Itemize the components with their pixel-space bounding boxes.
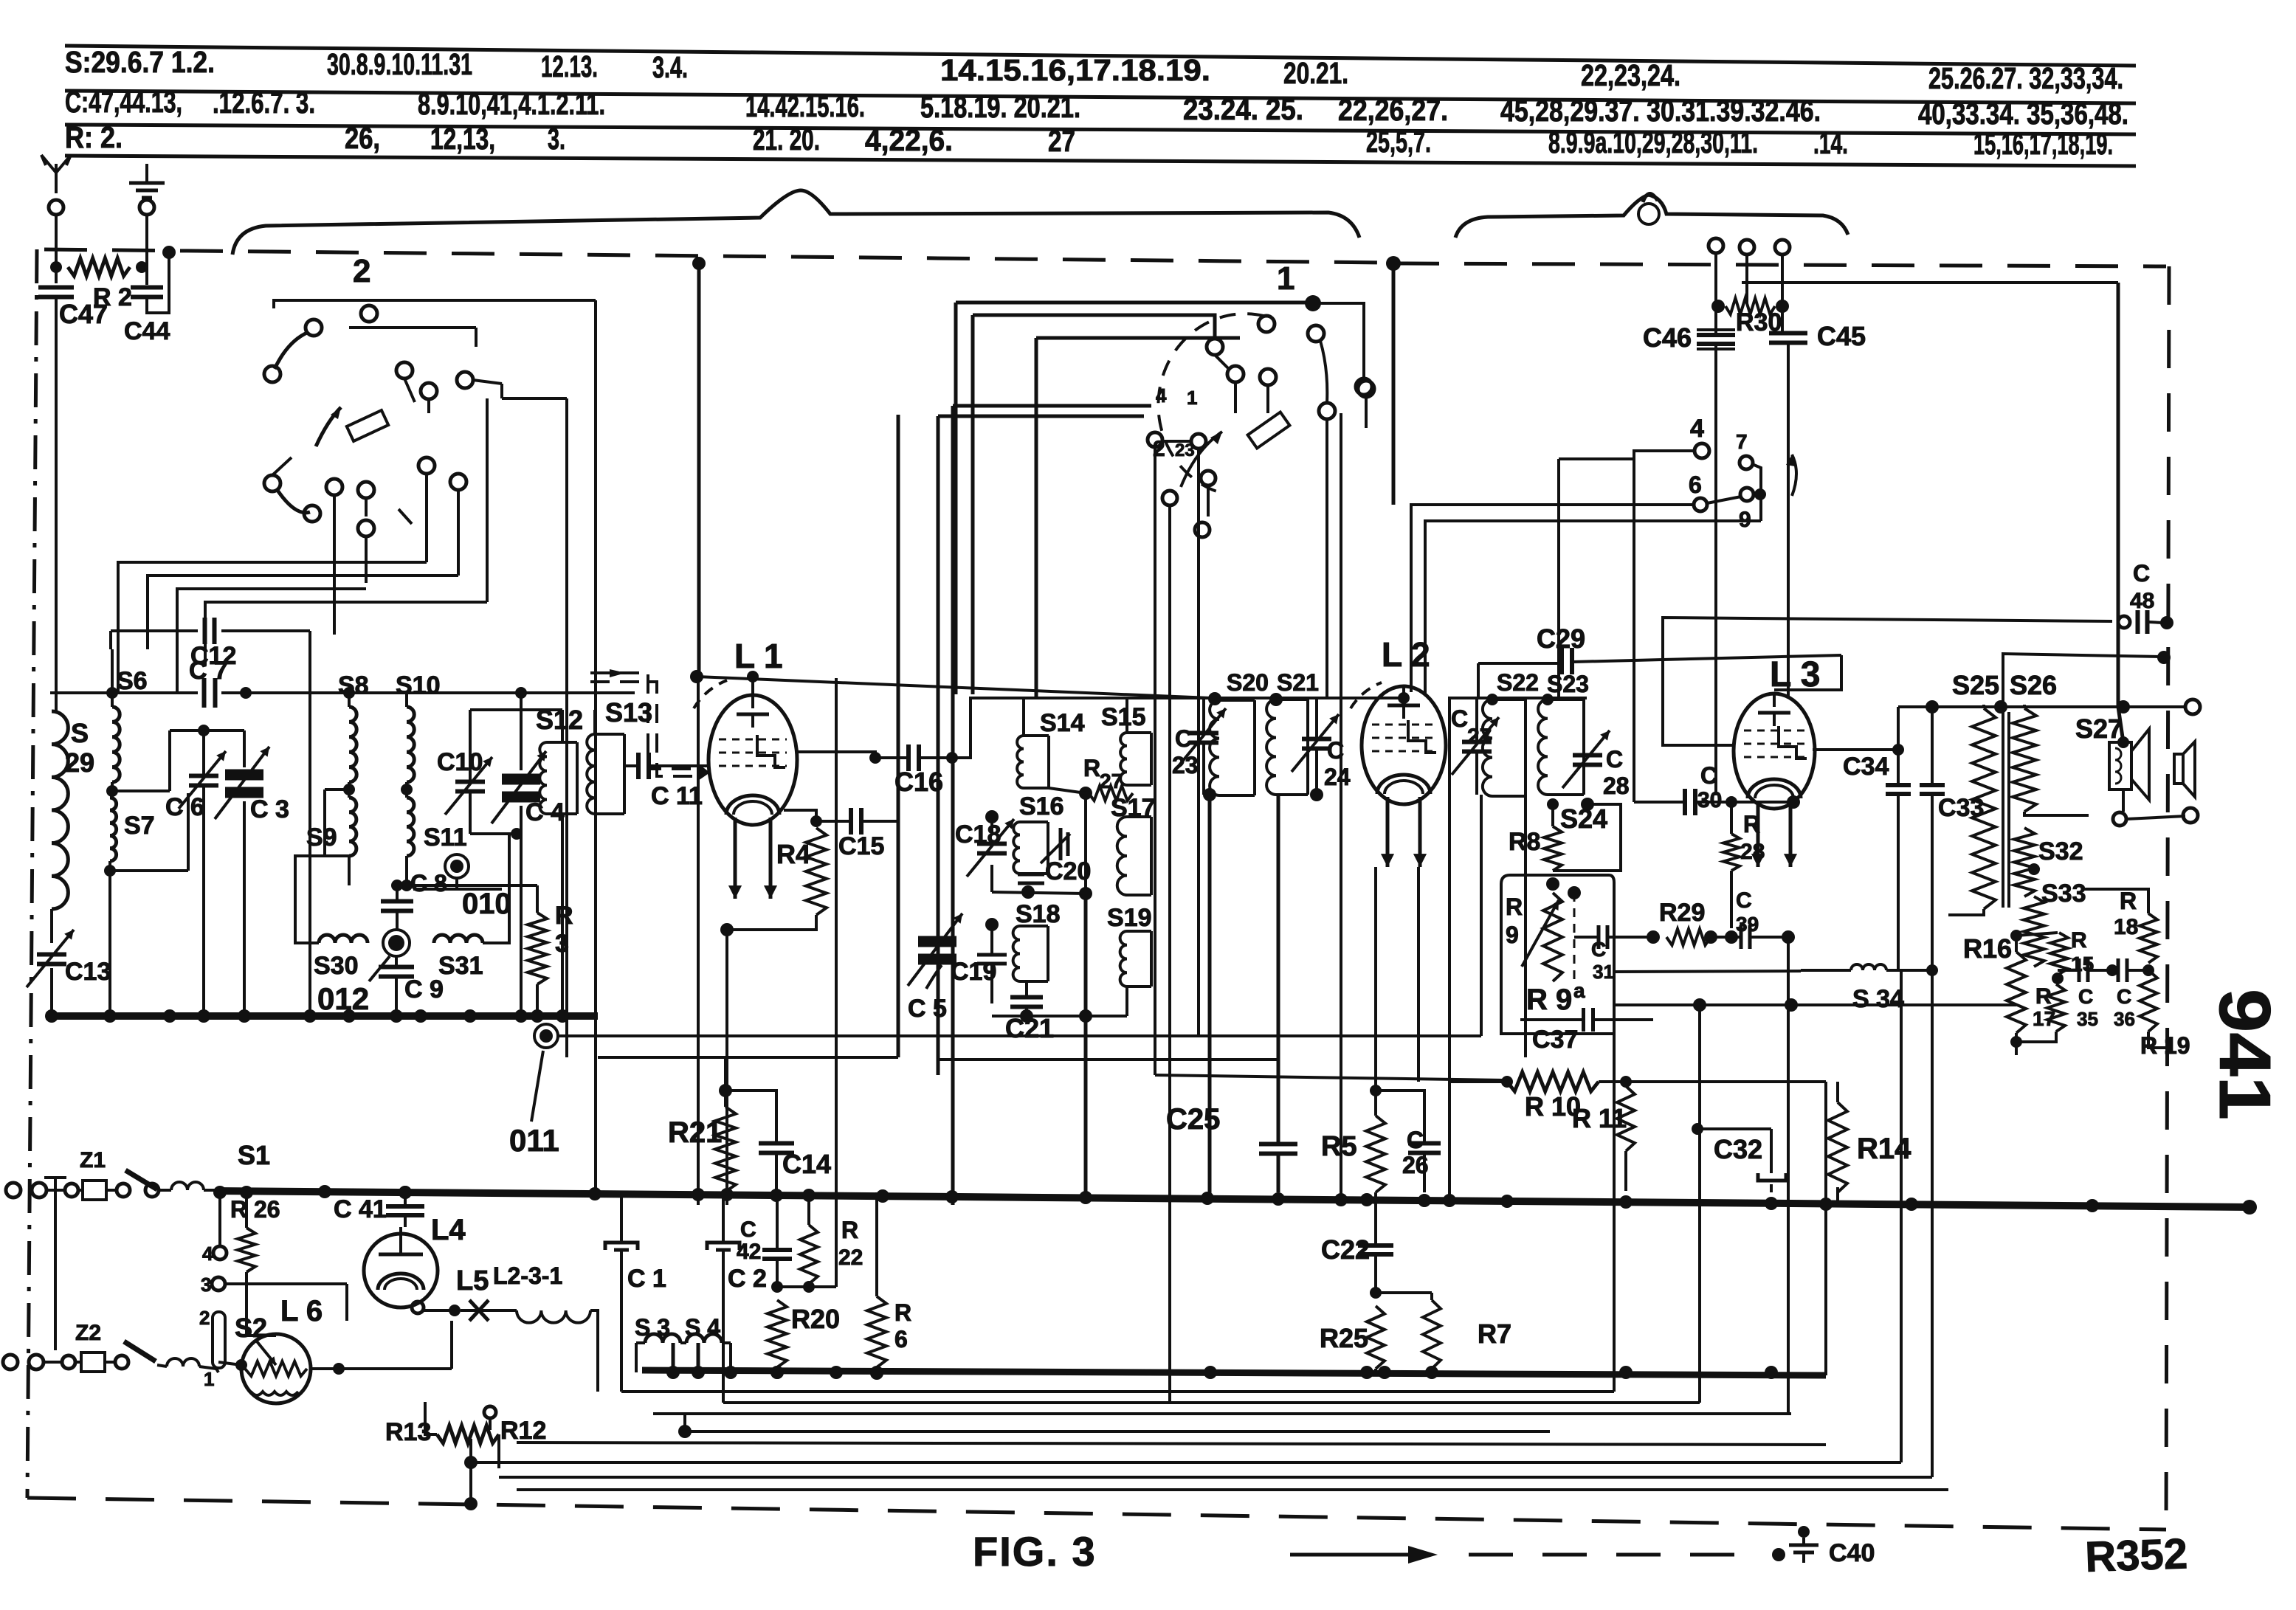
wire C4 vertical	[520, 693, 523, 770]
wire contact 3 right	[225, 1282, 347, 1285]
capacitor C8	[381, 899, 413, 904]
svg-text:C 3: C 3	[250, 795, 289, 823]
svg-text:R: R	[2071, 928, 2087, 953]
dashed border bottom	[27, 1498, 2166, 1530]
svg-text:5.18.19. 20.21.: 5.18.19. 20.21.	[920, 90, 1080, 124]
wire S26 box top to border	[2003, 654, 2159, 707]
capacitor C29	[1559, 648, 1564, 674]
switch 2 rotor bar	[347, 410, 388, 441]
capacitor C12	[203, 618, 207, 644]
switch 1 contact F	[1358, 381, 1374, 397]
wire L1 grid right	[796, 752, 875, 758]
vertical x=1271	[937, 416, 940, 1075]
pointer line 011	[531, 1051, 543, 1122]
S26 to S27 wire	[2024, 812, 2089, 815]
wire S26 top to speaker	[2023, 705, 2026, 708]
svg-text:C 9: C 9	[404, 975, 444, 1003]
switch 1 drop x=1817	[1340, 413, 1342, 1205]
switch 2 drop wire j	[365, 498, 368, 516]
wire R28	[1730, 802, 1733, 834]
transformer S26	[2013, 708, 2036, 812]
wire top horizontal y=939	[50, 691, 198, 694]
wire C23	[1202, 699, 1205, 732]
wire S23 bottom S24	[1587, 766, 1588, 804]
wire C37	[1552, 981, 1554, 1020]
coil S18	[1013, 926, 1020, 981]
dashed border right	[2166, 266, 2169, 1530]
capacitor C7	[202, 678, 207, 708]
svg-text:S19: S19	[1107, 904, 1152, 932]
vertical x=1318	[971, 315, 975, 694]
svg-text:2: 2	[199, 1307, 210, 1329]
switch 2 contact f	[421, 383, 437, 399]
svg-text:28: 28	[1603, 773, 1630, 799]
variable capacitor C13	[37, 953, 66, 957]
svg-text:17: 17	[2033, 1007, 2055, 1030]
resistor R26	[238, 1228, 255, 1272]
svg-text:R 11: R 11	[1572, 1103, 1627, 1133]
svg-text:30.8.9.10.11.31: 30.8.9.10.11.31	[327, 47, 472, 81]
svg-text:S23: S23	[1547, 671, 1589, 697]
tube L3 arrows	[1757, 801, 1760, 867]
svg-text:C29: C29	[1537, 623, 1585, 654]
bundle right stub x=2423	[1787, 937, 1790, 1414]
switch 2 drop wire m	[457, 490, 460, 576]
node C48 left	[2118, 616, 2130, 628]
coil S11	[407, 798, 414, 856]
wire switch3 down to S23	[1557, 459, 1560, 698]
capacitor C1	[605, 1243, 638, 1250]
svg-text:S22: S22	[1497, 669, 1539, 696]
wire C12 horizontal	[111, 629, 198, 632]
svg-text:C 1: C 1	[627, 1265, 666, 1293]
vertical x=1404	[1035, 338, 1038, 698]
node S14/S15 bottom	[1079, 787, 1092, 800]
wire C47 down to S29	[55, 297, 58, 711]
header rule line 2	[65, 91, 2136, 103]
wire C31	[1574, 936, 1597, 939]
resistor R6	[867, 1296, 886, 1367]
svg-text:C25: C25	[1166, 1103, 1220, 1136]
variable capacitor C23	[1189, 731, 1218, 736]
block capacitor C4	[502, 774, 540, 785]
switch 2 contact a	[361, 305, 377, 322]
switch 1 drop K	[1168, 506, 1171, 1403]
svg-text:S1: S1	[238, 1140, 270, 1170]
capacitor C34	[1886, 783, 1911, 787]
svg-text:R4: R4	[776, 839, 810, 869]
wire 011 right	[558, 1034, 1481, 1037]
svg-text:C: C	[740, 1217, 756, 1242]
wire bundle row 4	[205, 602, 487, 666]
input T bar	[54, 1178, 57, 1350]
svg-text:C44: C44	[124, 317, 170, 345]
resistor R20	[768, 1300, 787, 1367]
svg-text:2: 2	[353, 253, 370, 289]
wire L2 top cap	[1402, 686, 1405, 698]
wire S29 bottom	[50, 909, 53, 943]
long wire bundle 7	[517, 1443, 1826, 1445]
switch 1 contact H	[1148, 432, 1162, 447]
wire y=564 to switch 1	[938, 415, 1144, 418]
capacitor C11	[636, 753, 641, 779]
svg-text:C46: C46	[1643, 322, 1692, 353]
svg-text:R: R	[555, 902, 573, 930]
switch 2 wiper arc g-h	[277, 489, 310, 513]
svg-text:C: C	[1175, 725, 1192, 752]
svg-text:R 9: R 9	[1526, 984, 1572, 1016]
svg-text:L 3: L 3	[1770, 655, 1820, 694]
svg-text:L 2: L 2	[1382, 635, 1430, 674]
direction arrow	[1290, 1553, 1411, 1557]
svg-text:S:29.6.7 1.2.: S:29.6.7 1.2.	[65, 45, 215, 79]
switch 3 arrow	[1792, 455, 1796, 496]
wire R29-C39	[1711, 936, 1740, 939]
svg-text:C 41: C 41	[334, 1195, 387, 1223]
switch 2 contact j	[358, 482, 374, 498]
svg-text:8.9.9a.10,29,28,30,11.: 8.9.9a.10,29,28,30,11.	[1548, 125, 1758, 159]
wire R25 bottom	[1374, 1369, 1377, 1373]
svg-text:39: 39	[1736, 913, 1759, 936]
coil S30	[319, 935, 368, 943]
dashed arrow continuation	[1469, 1553, 1757, 1557]
svg-text:C 8: C 8	[410, 870, 447, 896]
wire C30	[1634, 801, 1684, 804]
vertical x=2007	[1480, 795, 1483, 1036]
svg-text:C:47,44.13,: C:47,44.13,	[65, 85, 182, 119]
vertical x=1133	[835, 678, 838, 1247]
bundle right stub x=2303	[1698, 1005, 1701, 1403]
wire R5 top	[1374, 1082, 1377, 1116]
capacitor C22	[1358, 1243, 1393, 1248]
capacitor C16	[906, 744, 911, 771]
L6 wiper	[257, 1341, 276, 1365]
long wire bundle 1	[621, 1390, 1614, 1393]
wire pot left	[425, 1402, 437, 1434]
switch 2 contact c	[264, 366, 280, 382]
variable capacitor C10	[455, 780, 485, 784]
switch 2 small stub	[399, 509, 412, 524]
wire C34	[1897, 750, 1900, 785]
transformer S25	[1972, 708, 1996, 909]
coil S16	[1013, 822, 1020, 874]
resistor R21	[715, 1107, 736, 1192]
dashed wiper line	[1573, 893, 1576, 981]
capacitor C35	[2078, 958, 2081, 982]
ground terminal	[139, 200, 154, 215]
variable capacitor C24	[1302, 737, 1331, 742]
svg-text:23.24. 25.: 23.24. 25.	[1183, 92, 1303, 126]
vertical x=1964	[1448, 698, 1451, 1205]
wire R19 bottom	[2148, 1032, 2170, 1048]
svg-text:S7: S7	[124, 812, 155, 840]
svg-text:L 1: L 1	[734, 637, 783, 675]
tube L1 arrows	[734, 818, 737, 899]
capacitor C21	[1010, 995, 1043, 1000]
capacitor C33	[1920, 783, 1945, 787]
svg-text:S24: S24	[1560, 804, 1607, 834]
coil S10	[407, 707, 414, 782]
svg-text:S25: S25	[1952, 670, 1999, 700]
long wire bundle 3	[653, 1412, 1791, 1415]
coil S19	[1120, 931, 1127, 987]
wire C14	[725, 1091, 776, 1143]
coil S34	[1851, 964, 1886, 970]
svg-text:S31: S31	[438, 952, 483, 980]
svg-text:24: 24	[1324, 764, 1351, 790]
long wire bundle 8	[517, 1488, 1948, 1491]
vertical x=946 L1 area to bus B	[697, 677, 700, 1205]
wire bundle row 3	[177, 589, 366, 693]
svg-text:R352: R352	[2084, 1530, 2188, 1581]
resistor R28	[1723, 834, 1740, 871]
terminal top right output	[2185, 699, 2200, 714]
svg-text:S14: S14	[1040, 709, 1085, 737]
wire L1 cathode to R4	[784, 810, 816, 821]
switch 1 lower terminal	[1356, 379, 1372, 395]
ground symbol	[145, 164, 148, 183]
switch 2 contact i	[326, 479, 342, 495]
node S6-S7	[106, 785, 118, 797]
vertical x=1291 down to bus B	[951, 406, 955, 1205]
svg-text:22,23,24.: 22,23,24.	[1581, 58, 1680, 92]
capacitor C19	[977, 953, 1007, 957]
switch 1 contact E	[1308, 325, 1324, 342]
svg-text:27: 27	[1100, 770, 1123, 792]
switch 3 blob	[1754, 488, 1766, 500]
header rule line 4	[65, 156, 2136, 166]
svg-text:R14: R14	[1857, 1133, 1911, 1165]
switch 2 wiper arc b-c	[275, 332, 308, 369]
dashed arc at L2 top	[1351, 683, 1382, 708]
transformer core lines	[2002, 712, 2004, 908]
switch 1 wire left B	[973, 315, 1215, 339]
svg-text:C13: C13	[65, 958, 111, 986]
svg-text:L2-3-1: L2-3-1	[493, 1262, 562, 1289]
svg-text:40,33.34. 35,36,48.: 40,33.34. 35,36,48.	[1918, 97, 2128, 131]
vertical x=807	[594, 300, 597, 1194]
capacitor C15	[849, 808, 853, 835]
wire S24 box	[1587, 804, 1621, 871]
node R2-C44	[136, 261, 148, 273]
wire L1 top cap	[751, 677, 754, 695]
wire S27 bottom	[2122, 790, 2125, 812]
terminal R30 area 3	[1775, 240, 1790, 255]
long wire bundle 4	[685, 1430, 1550, 1433]
vertical x=1295	[954, 303, 958, 694]
svg-text:S27: S27	[2075, 714, 2123, 744]
resistor R15	[2050, 933, 2068, 974]
capacitor C14	[759, 1141, 794, 1146]
wire C44 to dashed border junction	[147, 252, 169, 313]
node on AVC at top	[690, 670, 703, 683]
wire top y=958	[1898, 705, 2185, 708]
wire antenna down	[55, 215, 58, 283]
node antenna-R2	[50, 261, 62, 273]
svg-text:.14.: .14.	[1813, 126, 1848, 160]
svg-text:C: C	[2117, 985, 2131, 1008]
svg-text:S 3: S 3	[635, 1314, 670, 1341]
wire S12 top	[561, 710, 564, 742]
coil S8	[349, 707, 356, 782]
vertical from border blob x=1888	[1392, 263, 1396, 505]
header rule line 3	[65, 125, 2136, 134]
svg-text:C40: C40	[1829, 1539, 1875, 1567]
switch 1 contact G	[1319, 403, 1335, 419]
resistor R8	[1544, 826, 1562, 871]
switch 2 drop wire i	[333, 495, 336, 635]
node C48 right	[2160, 616, 2173, 629]
node S10-S11	[401, 784, 413, 795]
svg-text:26,: 26,	[345, 121, 380, 155]
svg-text:20.21.: 20.21.	[1283, 56, 1348, 90]
wire C15	[816, 820, 850, 823]
wire R20 bottom	[776, 1367, 779, 1372]
wire S3 S4 frame	[636, 1341, 645, 1344]
switch 1 contact B	[1207, 339, 1223, 355]
switch 2 wire top right	[349, 326, 476, 329]
wire R3	[536, 885, 539, 913]
svg-text:4: 4	[202, 1243, 213, 1265]
svg-text:R: R	[1083, 755, 1100, 781]
svg-text:42: 42	[737, 1240, 761, 1264]
switch 3 contact 4	[1695, 443, 1709, 458]
svg-text:S 4: S 4	[685, 1314, 720, 1341]
long wire bundle 6	[499, 1476, 1932, 1479]
coil S1 choke	[171, 1182, 204, 1190]
Z1 fuse box	[83, 1181, 106, 1200]
switch 1 wire left C	[1036, 336, 1240, 340]
coil S20	[1210, 700, 1219, 795]
resistor R2	[68, 258, 130, 276]
node C18-S16	[985, 810, 999, 823]
dashed AVC wire pair	[590, 673, 703, 769]
coil S21	[1266, 699, 1276, 795]
variable capacitor C27	[1462, 740, 1492, 744]
svg-text:3.4.: 3.4.	[652, 50, 688, 84]
svg-text:S13: S13	[605, 697, 652, 728]
svg-text:C: C	[1700, 762, 1717, 789]
coil S7	[110, 798, 117, 861]
wire C35	[2058, 969, 2078, 972]
capacitor C2	[707, 1243, 740, 1250]
wire R22	[807, 1192, 810, 1225]
resistor R16	[2007, 952, 2026, 1033]
wire y=1433 long horizontal	[598, 1056, 898, 1059]
coil S14	[1017, 736, 1024, 788]
svg-text:25.26.27. 32,33,34.: 25.26.27. 32,33,34.	[1928, 61, 2123, 95]
coil S29	[52, 711, 68, 909]
svg-text:36: 36	[2114, 1008, 2135, 1030]
wire C32	[1697, 1127, 1771, 1130]
wire C18 drop	[990, 817, 993, 832]
svg-text:C: C	[1451, 705, 1468, 732]
svg-text:C 5: C 5	[908, 995, 947, 1023]
resistor R29	[1666, 929, 1711, 945]
resistor R7	[1423, 1300, 1441, 1369]
svg-text:7: 7	[1736, 430, 1748, 453]
wire C27	[1475, 698, 1478, 741]
svg-text:23: 23	[1172, 752, 1199, 778]
long wire bundle 2	[723, 1401, 1700, 1404]
wire C41	[404, 1192, 407, 1206]
svg-text:R: 2.: R: 2.	[65, 120, 123, 154]
svg-text:S20: S20	[1227, 669, 1269, 696]
svg-text:C: C	[1327, 737, 1344, 764]
coil S12	[539, 742, 547, 814]
switch 3 contact 6	[1694, 498, 1707, 511]
coil S15	[1120, 733, 1127, 785]
switch 2 contact k	[358, 520, 374, 536]
switch 1 internal links	[1215, 355, 1229, 369]
switch 1 rotor arrow	[1181, 432, 1222, 487]
svg-text:C 6: C 6	[165, 793, 204, 821]
node S18 top	[985, 918, 999, 931]
svg-text:12,13,: 12,13,	[430, 122, 495, 156]
switch 1 contact K	[1162, 491, 1177, 505]
svg-text:15: 15	[2071, 953, 2094, 975]
svg-text:4,22,6.: 4,22,6.	[865, 123, 953, 157]
svg-text:9: 9	[1506, 922, 1519, 948]
wire C33	[1931, 705, 1934, 785]
AVC arrowheads	[610, 669, 626, 677]
svg-text:3: 3	[201, 1274, 211, 1296]
svg-text:C47: C47	[59, 299, 108, 329]
svg-text:C34: C34	[1843, 753, 1889, 781]
coil S17	[1117, 817, 1127, 895]
svg-text:S16: S16	[1019, 792, 1064, 820]
switch 2 contact l	[418, 457, 435, 474]
bundle right stub x=2187	[1613, 1034, 1616, 1392]
svg-text:S6: S6	[117, 667, 148, 695]
tube L4 terminal	[412, 1302, 424, 1313]
wire R18 top	[2081, 889, 2148, 913]
wire C2	[722, 1192, 725, 1243]
vertical x=1471 down	[1084, 894, 1088, 1198]
switch 1 wire right to terminal	[1313, 303, 1364, 379]
switch 2 drop wire l	[425, 474, 428, 562]
wire pot right down	[497, 1434, 500, 1468]
wire top y=946 S14 area	[971, 697, 1215, 699]
wire tops S22/S23	[1448, 697, 1587, 699]
switch 2 contact d	[396, 362, 413, 379]
wire L2 left to C24	[1317, 744, 1362, 746]
node R30 right	[1776, 300, 1789, 313]
svg-text:C: C	[1736, 888, 1752, 913]
node R29 ends	[1647, 930, 1660, 944]
vertical x=768	[565, 398, 568, 1057]
svg-text:S15: S15	[1101, 703, 1146, 731]
switch 2 contact b	[306, 319, 322, 336]
capacitor C46	[1697, 333, 1735, 337]
svg-text:48: 48	[2130, 589, 2154, 613]
svg-text:C37: C37	[1532, 1026, 1578, 1054]
wire S17 bottom to node	[1084, 793, 1087, 894]
switch 3 links	[1752, 464, 1761, 493]
svg-text:S32: S32	[2038, 837, 2083, 866]
contact 3	[212, 1277, 225, 1291]
wire S31 right	[483, 834, 509, 943]
long wire bundle 5	[471, 1461, 1901, 1464]
wire C29 vertical	[1477, 663, 1480, 698]
svg-text:R: R	[894, 1299, 911, 1326]
switch 1 wire left A	[956, 301, 1313, 305]
switch 2 outline top	[274, 300, 373, 308]
svg-text:S 34: S 34	[1852, 985, 1904, 1013]
junction blob on top dashed border	[1386, 256, 1401, 271]
jack 012	[383, 930, 410, 956]
resistor R27	[1089, 786, 1133, 801]
